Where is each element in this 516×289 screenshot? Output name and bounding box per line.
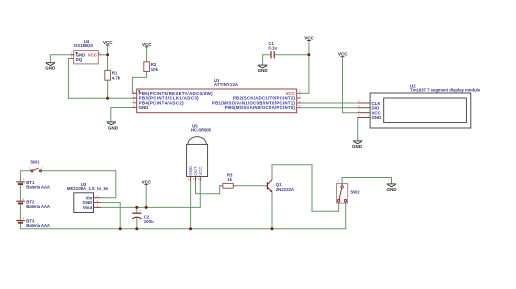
svg-text:10k: 10k <box>151 67 159 72</box>
svg-text:1k: 1k <box>227 177 232 182</box>
svg-text:VCC: VCC <box>338 52 348 57</box>
svg-text:DS18B20: DS18B20 <box>74 43 93 48</box>
svg-text:GND: GND <box>258 68 269 73</box>
svg-text:VCC: VCC <box>103 40 113 45</box>
svg-text:ATTINY13A: ATTINY13A <box>214 82 238 87</box>
svg-text:4.7k: 4.7k <box>112 75 121 80</box>
svg-text:VCC: VCC <box>142 179 152 184</box>
svg-text:Bateria AAA: Bateria AAA <box>26 223 50 228</box>
svg-text:+: + <box>22 178 24 182</box>
svg-text:Tm1637 7 segment display modul: Tm1637 7 segment display module <box>410 87 481 92</box>
svg-text:2N2222A: 2N2222A <box>276 187 294 192</box>
svg-text:Vout: Vout <box>83 205 93 210</box>
svg-text:100u: 100u <box>144 219 154 224</box>
svg-text:PB0(MOSI/AIN0/OC0A/PCINT0): PB0(MOSI/AIN0/OC0A/PCINT0) <box>225 105 296 110</box>
svg-text:GND: GND <box>352 144 363 149</box>
svg-text:VCC: VCC <box>142 42 152 47</box>
svg-text:GND: GND <box>108 125 119 130</box>
svg-text:+: + <box>22 217 24 221</box>
svg-text:DQ: DQ <box>76 57 83 62</box>
svg-text:HC-SR505: HC-SR505 <box>191 128 212 133</box>
svg-text:GND: GND <box>139 105 149 110</box>
svg-text:VCC: VCC <box>304 36 314 41</box>
svg-text:0.1u: 0.1u <box>268 45 277 50</box>
svg-text:Bateria AAA: Bateria AAA <box>26 185 50 190</box>
svg-text:SW2: SW2 <box>350 190 360 195</box>
svg-text:GND: GND <box>387 187 398 192</box>
svg-text:+: + <box>22 197 24 201</box>
svg-text:SW1: SW1 <box>30 160 40 165</box>
svg-text:+: + <box>139 209 141 213</box>
svg-text:GND: GND <box>372 115 382 120</box>
svg-text:GND: GND <box>45 66 56 71</box>
svg-text:VCC: VCC <box>88 53 98 58</box>
svg-text:ME2108A_1.5_to_5v: ME2108A_1.5_to_5v <box>67 186 109 191</box>
svg-text:Bateria AAA: Bateria AAA <box>26 204 50 209</box>
svg-text:VCC: VCC <box>198 167 203 176</box>
